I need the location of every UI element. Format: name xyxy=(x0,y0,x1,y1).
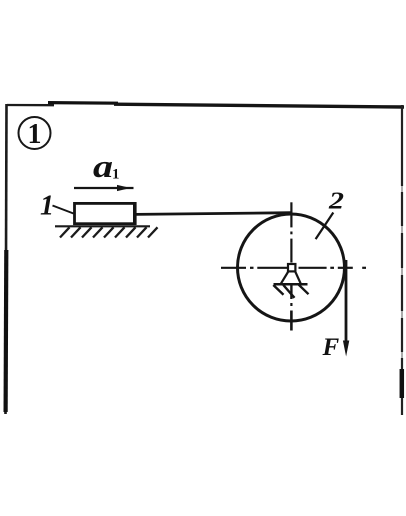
svg-text:1: 1 xyxy=(28,119,42,150)
svg-text:2: 2 xyxy=(328,187,344,214)
svg-text:1: 1 xyxy=(112,167,120,183)
svg-text:1: 1 xyxy=(40,191,54,222)
svg-text:F: F xyxy=(322,334,340,361)
svg-text:a: a xyxy=(93,149,113,184)
